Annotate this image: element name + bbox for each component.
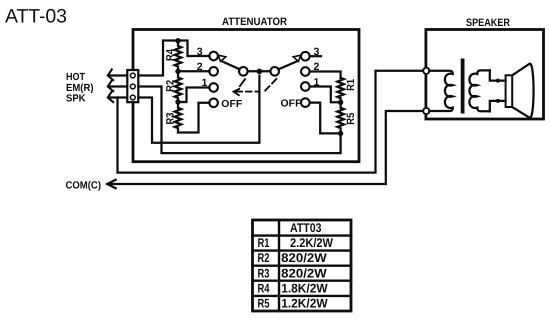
dashed wiper right diagonal [265,79,276,91]
svg-text:R2: R2 [258,251,270,265]
wire HOT external [109,74,128,76]
resistor R4 [175,41,182,71]
speaker terminal top [423,68,429,74]
node secondary top [496,79,500,83]
svg-text:820/2W: 820/2W [281,266,327,280]
wire contact 1 to node C [178,88,210,103]
arrow EM(R) terminal [108,80,113,91]
node A [175,38,180,43]
svg-text:OFF: OFF [281,99,302,110]
transformer primary winding [429,71,453,111]
wire secondary bottom lead [490,101,506,111]
resistor R1 [337,78,344,103]
contact 3 right [301,52,310,61]
wire pole junction [248,70,271,72]
wire R3 bottom to OFF contact [178,103,210,133]
transformer core [461,59,465,114]
node F [338,131,343,136]
svg-text:1.8K/2W: 1.8K/2W [281,281,328,295]
junction dot poles [257,69,263,75]
svg-text:2.2K/2W: 2.2K/2W [290,236,333,250]
svg-text:1: 1 [202,77,208,89]
wire contact 2 right to R1 [310,72,341,78]
wiper arrowhead right [293,55,301,61]
resistor R5 [337,102,344,133]
svg-text:R4: R4 [258,281,270,295]
node secondary bottom [496,99,500,103]
resistor R3 [175,102,182,133]
pin 2 [130,84,135,89]
pin 3 [130,95,135,100]
node B [175,69,180,74]
svg-text:SPEAKER: SPEAKER [466,17,510,29]
contact OFF left [209,99,218,108]
dashed wiper left horizontal [237,91,260,93]
transformer secondary winding [469,70,489,111]
table row line 4 [253,280,352,282]
wire contact 1 right to node E [310,87,341,103]
contact 1 left [209,83,218,92]
stub contact 3 right [310,55,321,57]
wire EM(R) external [109,85,128,87]
speaker box [426,30,544,120]
wire node A to contact 3 [178,41,210,57]
svg-text:OFF: OFF [221,99,242,110]
wire secondary top lead [490,70,506,80]
wire OFF right to node F [310,103,341,134]
svg-text:820/2W: 820/2W [281,251,327,265]
svg-text:SPK: SPK [66,94,86,105]
contact OFF right [301,98,310,107]
arrow HOT terminal [108,69,113,80]
svg-text:1.2K/2W: 1.2K/2W [281,297,328,311]
speaker terminal bottom [423,108,429,114]
resistor R2 [175,71,182,102]
speaker cone [512,64,533,118]
svg-text:ATT-03: ATT-03 [5,6,67,28]
svg-text:2: 2 [197,61,203,73]
contact 1 right [301,82,310,91]
contact 2 right [301,67,310,76]
wire HOT to divider top [138,41,178,76]
pole circle right [270,67,279,76]
svg-text:COM(C): COM(C) [66,180,102,191]
attenuator box [133,30,359,162]
pole circle left [239,67,248,76]
svg-text:R3: R3 [258,266,270,280]
svg-text:R5: R5 [258,297,270,311]
svg-text:EM(R): EM(R) [66,83,94,94]
svg-text:HOT: HOT [66,72,86,83]
svg-text:R3: R3 [164,112,176,124]
wire SPK to wiper pole [138,76,259,143]
contact 3 left [209,52,218,61]
contact 2 left [209,67,218,76]
table column divider [278,220,280,311]
table [253,220,352,311]
wire SPK external [109,96,128,98]
dashed arrowhead left [234,89,240,95]
node E [338,100,343,105]
svg-text:ATT03: ATT03 [290,221,322,235]
pin 1 [130,73,135,78]
wire EM(R) to R5 bottom [138,87,340,154]
node C [175,99,180,104]
wiper arm right [279,61,299,70]
table row line 2 [253,249,352,251]
table row line 3 [253,265,352,267]
table row line 5 [253,295,352,297]
wiper arm left [221,61,240,69]
arrow COM terminal [107,180,116,188]
wire node B to contact 2 [178,70,210,72]
svg-text:3: 3 [197,46,203,58]
svg-text:R1: R1 [345,79,357,91]
wire speaker hot loop [118,71,424,173]
svg-text:R2: R2 [164,80,176,92]
svg-text:R4: R4 [164,49,176,61]
svg-text:ATTENUATOR: ATTENUATOR [222,16,287,28]
svg-text:R5: R5 [345,113,357,125]
arrow SPK terminal [108,91,113,102]
connector J1 [127,70,138,102]
svg-text:R1: R1 [258,236,270,250]
table row line 1 [253,234,352,236]
table frame [253,220,352,311]
wiper arrowhead left [218,55,226,61]
speaker driver [506,75,513,107]
wire speaker return COM [108,111,424,184]
dashed wiper left diagonal [240,79,245,86]
